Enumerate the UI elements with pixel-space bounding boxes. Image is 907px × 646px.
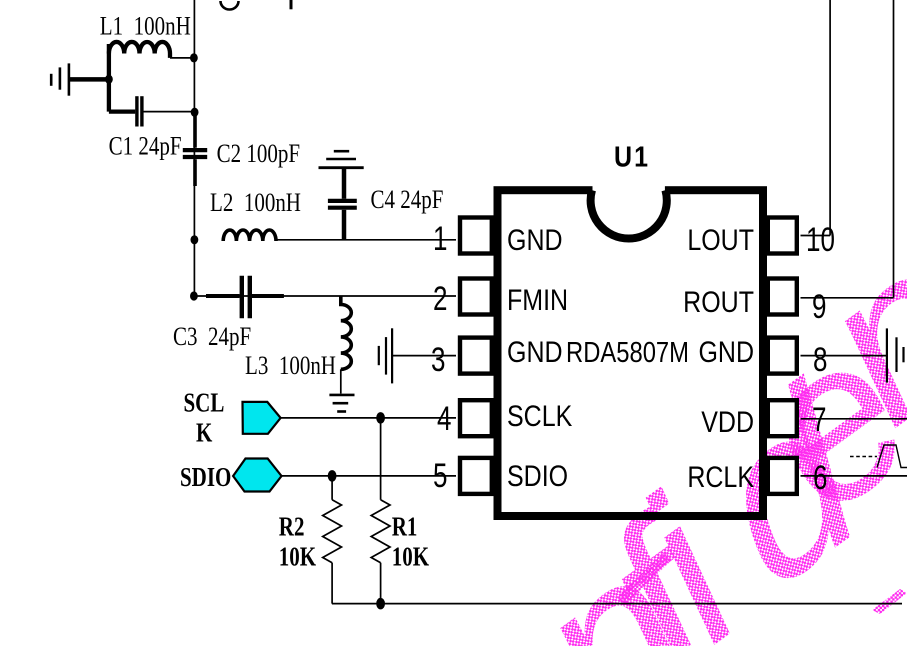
- svg-text:ROUT: ROUT: [683, 285, 754, 319]
- svg-text:SCLK: SCLK: [507, 399, 573, 433]
- svg-text:C4 24pF: C4 24pF: [371, 186, 444, 215]
- svg-text:L2 100nH: L2 100nH: [210, 189, 301, 218]
- svg-text:RCLK: RCLK: [687, 460, 754, 494]
- svg-text:C1 24pF: C1 24pF: [109, 132, 182, 161]
- svg-text:GND: GND: [507, 335, 563, 369]
- svg-text:5: 5: [433, 458, 447, 495]
- svg-text:GND: GND: [507, 223, 563, 257]
- svg-text:8: 8: [813, 342, 827, 379]
- svg-text:7: 7: [812, 402, 826, 439]
- svg-text:RDA5807M: RDA5807M: [566, 336, 689, 369]
- svg-text:C2 100pF: C2 100pF: [217, 140, 300, 169]
- svg-text:4: 4: [437, 401, 451, 438]
- svg-text:GND: GND: [698, 335, 754, 369]
- svg-text:1: 1: [433, 221, 447, 258]
- svg-text:U1: U1: [614, 141, 650, 173]
- svg-text:SCL: SCL: [184, 388, 225, 418]
- svg-text:SDIO: SDIO: [507, 459, 568, 493]
- svg-text:R1: R1: [392, 512, 418, 542]
- svg-text:K: K: [196, 418, 212, 448]
- svg-text:C3 24pF: C3 24pF: [173, 323, 251, 352]
- svg-text:FMIN: FMIN: [507, 283, 568, 317]
- svg-text:10: 10: [806, 222, 835, 259]
- svg-text:SDIO: SDIO: [180, 462, 231, 492]
- svg-text:L1 100nH: L1 100nH: [100, 13, 191, 42]
- svg-text:L3 100nH: L3 100nH: [245, 352, 336, 381]
- svg-text:9: 9: [812, 289, 826, 326]
- svg-text:LOUT: LOUT: [687, 223, 754, 257]
- svg-text:2: 2: [433, 281, 447, 318]
- svg-text:VDD: VDD: [701, 405, 754, 439]
- svg-text:R2: R2: [279, 512, 305, 542]
- svg-text:10K: 10K: [392, 542, 429, 572]
- svg-text:3: 3: [431, 342, 445, 379]
- svg-text:10K: 10K: [279, 542, 316, 572]
- svg-text:6: 6: [813, 460, 827, 497]
